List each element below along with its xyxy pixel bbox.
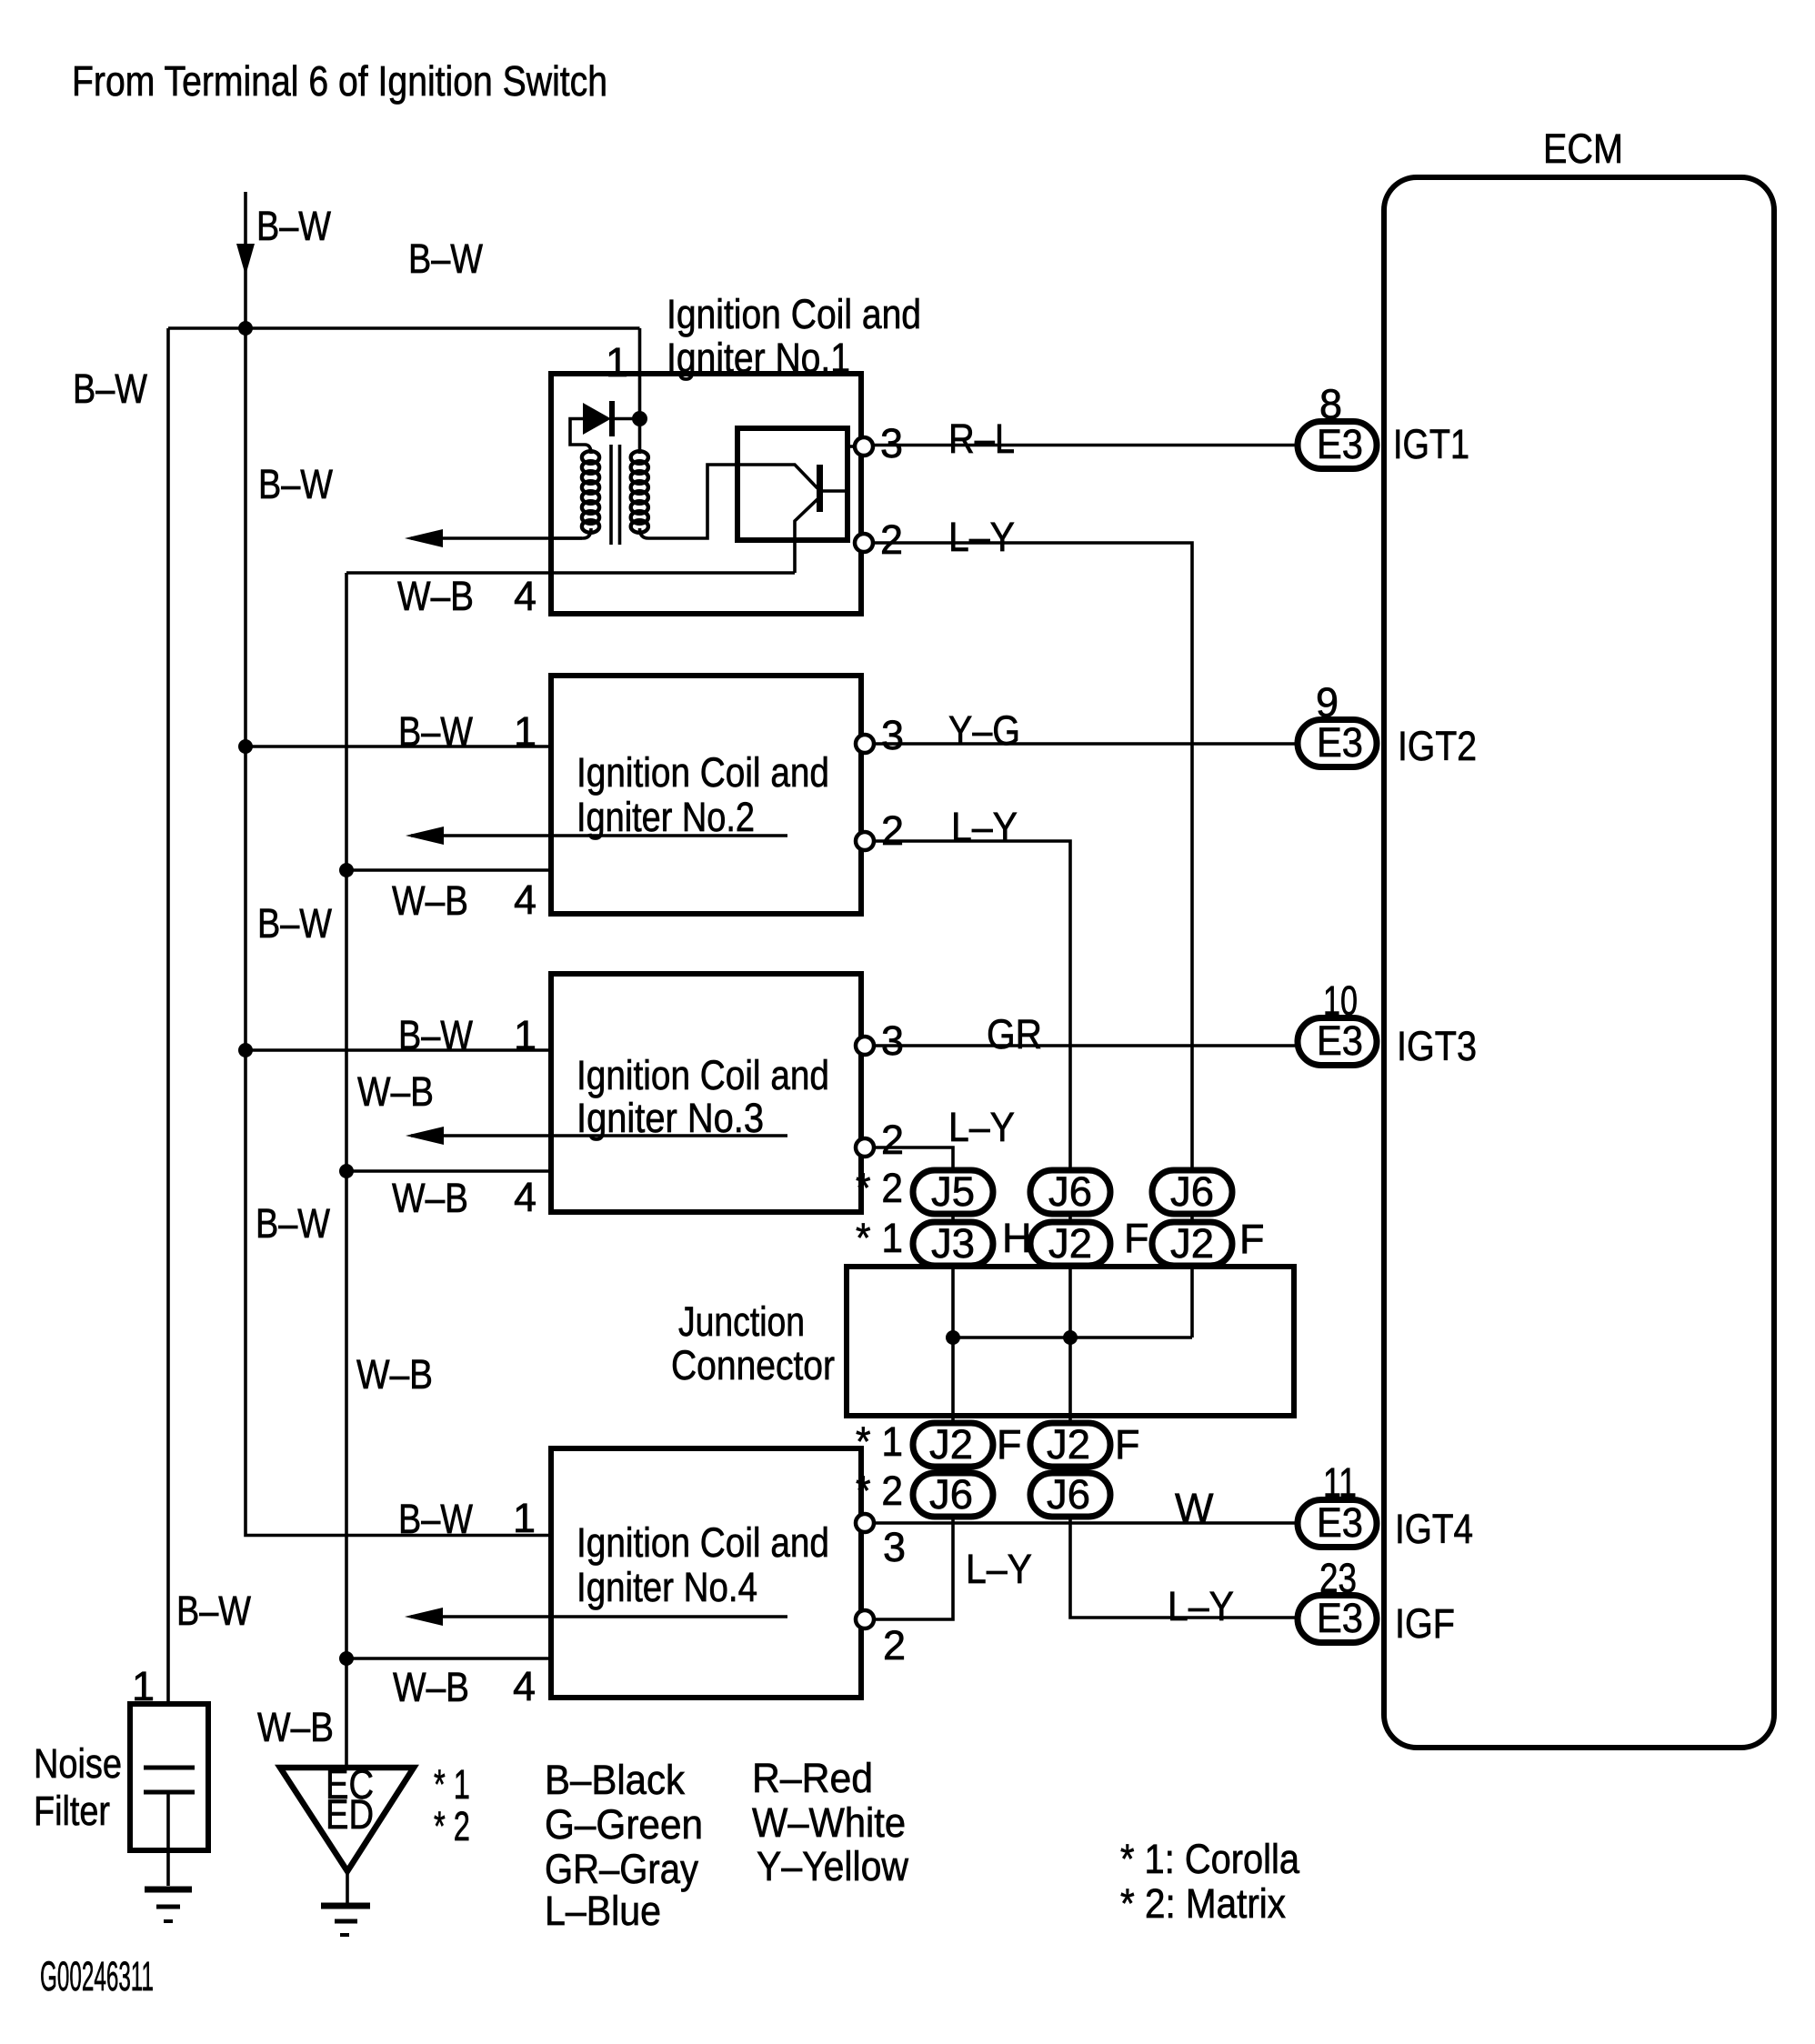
wire: B-W top bus horizontal bbox=[168, 326, 640, 330]
svg-text:L–Y: L–Y bbox=[948, 514, 1015, 560]
svg-text:W–B: W–B bbox=[393, 1664, 469, 1710]
pin circle U3 pin2 bbox=[856, 1138, 874, 1157]
svg-text:2: 2 bbox=[881, 807, 904, 854]
oval J2 row3 col1 bbox=[913, 1421, 993, 1468]
node: junction tie right bbox=[1063, 1330, 1078, 1345]
node: W-B junction at U4 bbox=[339, 1651, 354, 1666]
wire: L-Y from U3 pin2 down to junction connector bbox=[874, 1147, 953, 1619]
wire: junction connector internal tie bbox=[953, 1336, 1192, 1339]
svg-text:F: F bbox=[997, 1421, 1022, 1468]
node: B-W junction to U3 bbox=[238, 1043, 253, 1057]
wire: L-Y from U2 pin2 down to junction connector bbox=[874, 841, 1295, 1618]
igniter box U1 bbox=[551, 374, 861, 614]
svg-text:3: 3 bbox=[881, 712, 904, 758]
svg-text:J6: J6 bbox=[1170, 1168, 1214, 1215]
svg-text:E3: E3 bbox=[1317, 1499, 1363, 1546]
svg-text:J3: J3 bbox=[931, 1220, 975, 1267]
oval J3 bbox=[913, 1220, 993, 1267]
svg-text:W–B: W–B bbox=[392, 1175, 468, 1221]
svg-text:* 1: * 1 bbox=[856, 1215, 903, 1261]
pin circle U3 pin3 bbox=[856, 1037, 874, 1055]
svg-text:IGT2: IGT2 bbox=[1398, 723, 1477, 769]
svg-text:1: 1 bbox=[514, 1012, 536, 1058]
arrowhead down on feed wire bbox=[236, 244, 255, 276]
svg-text:J2: J2 bbox=[929, 1421, 973, 1468]
wire: B-W distribution vertical bbox=[246, 328, 548, 1536]
svg-text:From Terminal 6 of Ignition Sw: From Terminal 6 of Ignition Switch bbox=[72, 57, 607, 105]
legend color codes bbox=[545, 1755, 908, 1934]
node: U1 pin1 to coil bbox=[632, 411, 647, 426]
wire: W-B branch from U2 pin 4 bbox=[346, 868, 548, 872]
wire: L-Y from U1 pin2 down to junction connector bbox=[873, 543, 1192, 1338]
svg-text:J2: J2 bbox=[1048, 1220, 1092, 1267]
svg-text:Y–G: Y–G bbox=[948, 707, 1020, 754]
svg-text:4: 4 bbox=[514, 877, 536, 923]
U1 internals: primary winding L1 hooks bbox=[585, 445, 591, 454]
svg-text:Ignition Coil and: Ignition Coil and bbox=[577, 1519, 829, 1566]
noise filter NF1 bbox=[130, 1663, 208, 1886]
arrow: spark output U2 bbox=[411, 834, 787, 837]
svg-text:B–W: B–W bbox=[73, 366, 147, 412]
svg-text:8: 8 bbox=[1319, 381, 1342, 427]
svg-text:10: 10 bbox=[1323, 977, 1358, 1024]
svg-text:Noise: Noise bbox=[34, 1740, 122, 1787]
wire: B-W feed from ignition switch (vertical drop) bbox=[244, 192, 247, 328]
pin circle U1 pin3 bbox=[855, 437, 873, 456]
svg-text:23: 23 bbox=[1319, 1555, 1357, 1601]
svg-text:9: 9 bbox=[1316, 679, 1339, 726]
wire: W-B branch from U3 pin 4 bbox=[346, 1169, 548, 1173]
svg-text:B–W: B–W bbox=[256, 1200, 330, 1247]
svg-text:J6: J6 bbox=[1047, 1471, 1090, 1518]
svg-text:W–B: W–B bbox=[357, 1068, 434, 1115]
svg-text:J6: J6 bbox=[929, 1471, 973, 1518]
svg-text:2: 2 bbox=[883, 1622, 906, 1668]
wire: U1 pin4 / emitter run bbox=[346, 571, 795, 575]
svg-text:W–B: W–B bbox=[392, 877, 468, 924]
svg-text:B–W: B–W bbox=[398, 1496, 473, 1542]
svg-text:W–B: W–B bbox=[356, 1351, 433, 1398]
svg-text:F: F bbox=[1115, 1421, 1140, 1468]
svg-text:1: 1 bbox=[514, 708, 536, 755]
svg-text:* 1: Corolla: * 1: Corolla bbox=[1120, 1836, 1300, 1882]
wire: Y-G from U2 pin3 to ECM IGT2 bbox=[874, 742, 1295, 746]
svg-text:3: 3 bbox=[883, 1524, 906, 1570]
svg-text:L–Y: L–Y bbox=[951, 804, 1018, 850]
svg-text:W–B: W–B bbox=[257, 1704, 334, 1750]
svg-text:Ignition Coil and: Ignition Coil and bbox=[577, 749, 829, 796]
svg-text:* 2: * 2 bbox=[856, 1165, 903, 1211]
U1 internals: pin3 stub bbox=[847, 445, 856, 448]
svg-text:L–Y: L–Y bbox=[948, 1104, 1015, 1150]
U1 internals: primary winding L1 loops bbox=[582, 451, 599, 533]
svg-text:Igniter No.1: Igniter No.1 bbox=[667, 335, 850, 381]
svg-text:Filter: Filter bbox=[34, 1788, 110, 1834]
svg-text:B–W: B–W bbox=[176, 1588, 251, 1634]
svg-text:1: 1 bbox=[606, 339, 628, 386]
svg-text:W–B: W–B bbox=[397, 573, 474, 619]
U1 internals: collector line bbox=[823, 489, 845, 493]
wire: B-W branch to U3 pin 1 bbox=[246, 1048, 548, 1052]
oval J6 row1 col2 bbox=[1030, 1168, 1110, 1215]
svg-text:J6: J6 bbox=[1048, 1168, 1092, 1215]
oval J2 row2 col3 bbox=[1152, 1220, 1232, 1267]
connector E3 pin 11 IGT4 bbox=[1298, 1499, 1377, 1548]
svg-text:Ignition Coil and: Ignition Coil and bbox=[667, 291, 921, 337]
U1 internals: diode D1 bbox=[583, 403, 611, 435]
svg-text:1: 1 bbox=[513, 1495, 536, 1541]
svg-text:IGF: IGF bbox=[1395, 1600, 1455, 1647]
svg-text:IGT1: IGT1 bbox=[1393, 421, 1469, 467]
U1 internals: secondary winding L2 loops bbox=[631, 451, 648, 533]
svg-text:GR: GR bbox=[987, 1011, 1042, 1057]
wire: GR from U3 pin3 to ECM IGT3 bbox=[874, 1044, 1295, 1047]
svg-text:Y–Yellow: Y–Yellow bbox=[757, 1843, 908, 1889]
node: B-W junction to U2 bbox=[238, 739, 253, 754]
arrow: spark output U4 bbox=[411, 1615, 787, 1618]
U1 internals: transistor Q1 block bbox=[737, 428, 847, 540]
pin circle U2 pin2 bbox=[856, 832, 874, 850]
svg-text:3: 3 bbox=[880, 420, 903, 466]
svg-text:R–L: R–L bbox=[948, 416, 1015, 462]
svg-text:E3: E3 bbox=[1317, 1017, 1363, 1064]
svg-text:L–Blue: L–Blue bbox=[545, 1888, 661, 1934]
svg-text:GR–Gray: GR–Gray bbox=[545, 1846, 698, 1892]
svg-text:Junction: Junction bbox=[678, 1298, 805, 1345]
oval J6 row1 col3 bbox=[1152, 1168, 1232, 1215]
oval J2 row2 col2 bbox=[1030, 1220, 1110, 1267]
wire: B-W left vertical to noise filter bbox=[166, 328, 170, 1768]
svg-text:Ignition Coil and: Ignition Coil and bbox=[577, 1052, 829, 1098]
U1 internals: secondary winding L2 hooks bbox=[638, 426, 642, 454]
U1 internals: diode anode wire bbox=[570, 419, 585, 446]
node: B-W junction at top bus bbox=[238, 321, 253, 336]
svg-text:IGT4: IGT4 bbox=[1395, 1506, 1473, 1552]
svg-text:B–Black: B–Black bbox=[545, 1757, 685, 1803]
pin circle U4 pin2 bbox=[856, 1610, 874, 1628]
svg-text:H: H bbox=[1002, 1215, 1032, 1261]
pin circle U2 pin3 bbox=[856, 735, 874, 753]
svg-text:B–W: B–W bbox=[398, 1012, 473, 1058]
svg-text:* 2: * 2 bbox=[434, 1803, 470, 1849]
svg-text:ED: ED bbox=[326, 1791, 374, 1838]
svg-text:L–Y: L–Y bbox=[1168, 1583, 1234, 1629]
wire: R-L from U1 pin3 to ECM IGT1 bbox=[873, 444, 1295, 447]
connector E3 pin 23 IGF bbox=[1298, 1595, 1377, 1643]
svg-text:* 1: * 1 bbox=[434, 1761, 470, 1808]
svg-text:B–W: B–W bbox=[408, 235, 483, 282]
wire: W-B ground bus vertical bbox=[345, 573, 348, 1768]
pin circle U4 pin3 bbox=[856, 1514, 874, 1532]
oval J6 row4 col1 bbox=[913, 1471, 993, 1518]
wire: U1 pin 1 drop bbox=[638, 328, 642, 418]
svg-text:2: 2 bbox=[881, 1117, 904, 1163]
svg-text:L–Y: L–Y bbox=[966, 1546, 1032, 1592]
U1 internals: core bbox=[609, 445, 613, 545]
svg-text:J5: J5 bbox=[931, 1168, 975, 1215]
svg-text:B–W: B–W bbox=[258, 461, 333, 507]
svg-text:E3: E3 bbox=[1317, 1595, 1363, 1641]
svg-text:4: 4 bbox=[514, 573, 536, 619]
svg-text:J2: J2 bbox=[1047, 1421, 1090, 1468]
svg-text:4: 4 bbox=[513, 1663, 536, 1709]
svg-text:2: 2 bbox=[880, 516, 903, 563]
oval J5 bbox=[913, 1168, 993, 1215]
svg-text:E3: E3 bbox=[1317, 719, 1363, 766]
junction connector box bbox=[847, 1267, 1294, 1416]
svg-text:* 1: * 1 bbox=[856, 1418, 903, 1465]
wire: B-W branch to U2 pin 1 bbox=[246, 745, 548, 748]
node: W-B junction at U2 bbox=[339, 863, 354, 877]
connector E3 pin 10 IGT3 bbox=[1298, 1017, 1377, 1066]
ground at noise filter bbox=[145, 1889, 192, 1921]
svg-text:E3: E3 bbox=[1317, 421, 1363, 467]
svg-text:B–W: B–W bbox=[256, 203, 331, 249]
svg-text:F: F bbox=[1239, 1216, 1265, 1262]
svg-text:W: W bbox=[1175, 1485, 1214, 1531]
oval J2 row3 col2 bbox=[1030, 1421, 1110, 1468]
ground at triangle bbox=[321, 1906, 370, 1935]
svg-text:G00246311: G00246311 bbox=[40, 1953, 154, 1999]
svg-text:IGT3: IGT3 bbox=[1397, 1023, 1477, 1069]
svg-text:11: 11 bbox=[1323, 1459, 1357, 1506]
svg-text:B–W: B–W bbox=[257, 900, 332, 947]
svg-text:R–Red: R–Red bbox=[752, 1755, 873, 1801]
igniter box U2 bbox=[551, 676, 861, 914]
arrow: spark output U3 bbox=[411, 1134, 787, 1137]
wire: W-B branch from U4 pin 4 bbox=[346, 1657, 548, 1660]
node: W-B junction at U3 bbox=[339, 1164, 354, 1178]
igniter box U3 bbox=[551, 974, 861, 1212]
connector E3 pin 8 IGT1 bbox=[1298, 421, 1377, 469]
wire: W from U4 pin3 to ECM IGT4 bbox=[874, 1521, 1295, 1525]
svg-text:* 2: Matrix: * 2: Matrix bbox=[1120, 1880, 1286, 1927]
svg-text:Connector: Connector bbox=[671, 1342, 835, 1388]
svg-text:* 2: * 2 bbox=[856, 1468, 903, 1514]
svg-text:3: 3 bbox=[881, 1017, 904, 1064]
U1 internals: emitter line bbox=[795, 499, 817, 573]
connector E3 pin 9 IGT2 bbox=[1298, 719, 1377, 767]
pin circle U1 pin2 bbox=[855, 534, 873, 552]
svg-text:J2: J2 bbox=[1170, 1220, 1214, 1267]
node: junction tie left bbox=[946, 1330, 960, 1345]
svg-text:W–White: W–White bbox=[752, 1799, 906, 1846]
U1 internals: transistor base bar bbox=[817, 465, 823, 512]
svg-text:F: F bbox=[1124, 1215, 1149, 1261]
svg-text:Igniter No.2: Igniter No.2 bbox=[577, 794, 755, 840]
svg-text:ECM: ECM bbox=[1543, 125, 1623, 172]
svg-text:4: 4 bbox=[514, 1174, 536, 1220]
ground triangle EC/ED bbox=[280, 1761, 414, 1904]
svg-text:B–W: B–W bbox=[398, 708, 473, 755]
arrow: spark output U1 bbox=[411, 536, 582, 540]
oval J6 row4 col2 bbox=[1030, 1471, 1110, 1518]
ECM box bbox=[1384, 177, 1774, 1748]
igniter box U4 bbox=[551, 1448, 861, 1698]
svg-text:G–Green: G–Green bbox=[545, 1801, 703, 1848]
svg-text:Igniter No.4: Igniter No.4 bbox=[577, 1564, 757, 1610]
